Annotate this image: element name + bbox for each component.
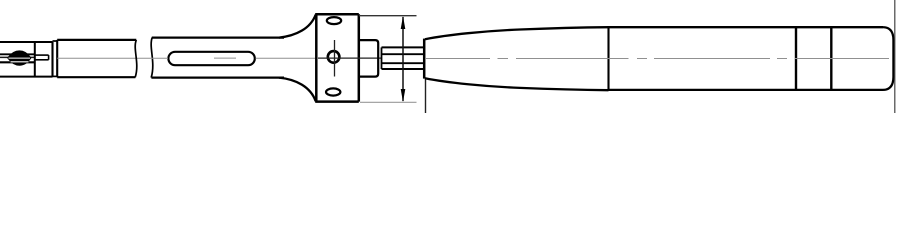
block outline [315,14,359,102]
extension line below cone face [425,79,427,114]
flare top curve [279,15,316,38]
ring bottom edge [53,75,58,77]
grip bottom edge [609,89,884,91]
collar face [381,47,383,69]
extension line top [359,15,417,17]
handle centerline dash 3 [654,58,770,60]
grip band line 2 [830,27,832,90]
shaft left face [56,40,58,77]
lens white slit upper [9,57,31,59]
body top edge [152,36,284,38]
shaft centerline [57,57,151,59]
lens flat on rod [9,52,30,65]
flange [360,40,378,77]
tip end vertical [51,42,53,77]
extension line bottom [360,101,417,103]
shaft top edge [57,39,136,41]
arrowhead down [401,89,406,102]
rod neck upper line [35,54,49,56]
flare bottom curve [279,78,316,102]
arrowhead up [401,16,406,29]
tip top edge [0,41,53,43]
tip centerline [0,56,35,58]
stud bottom line [382,62,424,64]
handle centerline dot 1 [498,58,509,60]
handle cone face [423,39,426,79]
handle centerline dot 3 [777,58,787,60]
dimension line [402,17,404,101]
ring top edge [53,40,58,42]
rod end cap [48,55,50,60]
handle cone bottom curve [425,78,609,90]
block center hole circle [328,51,340,63]
slot centerline dash [214,57,236,59]
grip end cap [883,27,893,90]
tip bottom edge [0,76,53,78]
crosshair horizontal [318,57,382,59]
handle cone top curve [425,27,609,39]
handle centerline dot 2 [637,58,647,60]
handle joint vertical [607,27,609,90]
grip top edge [609,26,884,28]
sleeve bottom edge [382,68,424,70]
block top hole [327,17,341,24]
border line right [894,0,896,113]
block bottom hole [326,88,340,95]
break line right [151,38,153,78]
slot [168,52,254,65]
body centerline right [256,57,317,59]
handle centerline dash 1 [426,58,490,60]
inner rod lower line [0,61,35,63]
break line left [135,40,137,77]
shaft bottom edge [57,76,135,78]
crosshair vertical [334,40,336,77]
tip joint vertical [34,42,36,77]
stud top line [382,53,424,55]
handle centerline dash 4 [795,58,889,60]
handle centerline dash 2 [516,58,629,60]
lens white slit lower [11,61,29,63]
body bottom edge [151,76,284,78]
rod neck lower line [35,59,49,61]
inner rod upper line [0,53,35,55]
sleeve top edge [382,46,424,48]
grip band line 1 [795,27,797,90]
body centerline left [152,57,168,59]
